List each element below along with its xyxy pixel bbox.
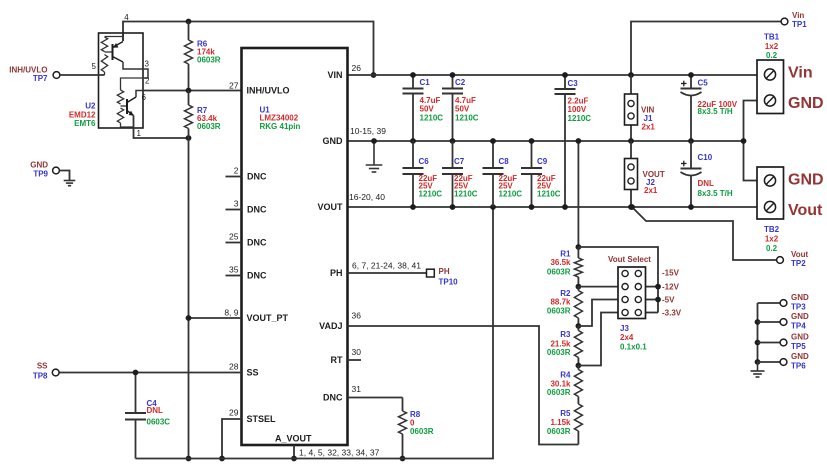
U1 PH pin wire — [330, 261, 427, 279]
test point TP7 INH/UVLO — [9, 62, 104, 83]
svg-text:8, 9: 8, 9 — [224, 308, 238, 318]
test point TP2 Vout — [777, 250, 809, 268]
svg-text:0603R: 0603R — [547, 388, 571, 397]
capacitor C3 2.2uF VIN to VOUT — [555, 72, 592, 210]
svg-text:36: 36 — [352, 311, 362, 321]
svg-text:0603R: 0603R — [547, 307, 571, 316]
svg-text:35: 35 — [229, 265, 239, 275]
svg-text:RT: RT — [331, 355, 343, 365]
wire A_VOUT bottom rail — [136, 204, 496, 458]
wire TB1 TB2 GND jog — [741, 101, 757, 181]
wire J3 row4 out — [646, 312, 659, 314]
svg-text:0603R: 0603R — [547, 348, 571, 357]
test point TP8 SS — [33, 362, 59, 381]
svg-text:50V: 50V — [455, 105, 470, 114]
U1 pin 3 DNC — [226, 199, 267, 215]
resistor R4 30.1k — [547, 366, 582, 405]
svg-text:GND: GND — [788, 95, 824, 112]
wire VIN rail — [348, 74, 758, 76]
node divider top — [576, 244, 582, 250]
test point TP5 GND — [758, 333, 810, 351]
svg-text:10-15, 39: 10-15, 39 — [350, 126, 386, 136]
svg-text:DNL: DNL — [147, 406, 164, 415]
U2 internal bias resistor lower pair — [117, 78, 143, 127]
svg-text:1, 4, 5, 32, 33, 34, 37: 1, 4, 5, 32, 33, 34, 37 — [299, 448, 380, 458]
svg-text:TP6: TP6 — [791, 361, 806, 370]
wire J3 row2 out — [646, 284, 661, 290]
U2 internal bias resistor upper pair — [101, 37, 123, 76]
test point TP10 PH pad — [427, 267, 459, 287]
capacitor C2 4.7uF — [442, 72, 479, 144]
node R3 R4 — [576, 363, 582, 369]
svg-text:C7: C7 — [454, 157, 465, 166]
svg-text:0603R: 0603R — [197, 56, 221, 65]
svg-text:8x3.5 T/H: 8x3.5 T/H — [698, 107, 733, 116]
svg-text:TP5: TP5 — [791, 342, 806, 351]
svg-text:DNL: DNL — [698, 179, 715, 188]
svg-text:6, 7, 21-24, 38, 41: 6, 7, 21-24, 38, 41 — [352, 261, 421, 271]
svg-text:30: 30 — [352, 347, 362, 357]
svg-text:GND: GND — [323, 136, 344, 146]
wire VIN top rail from U2 pin4 and R6 to VIN net — [123, 19, 376, 78]
svg-text:C10: C10 — [698, 153, 713, 162]
svg-text:-12V: -12V — [662, 283, 680, 292]
svg-text:VOUT_PT: VOUT_PT — [247, 313, 289, 323]
svg-text:VADJ: VADJ — [319, 321, 342, 331]
svg-text:1210C: 1210C — [499, 190, 523, 199]
svg-text:TP9: TP9 — [33, 169, 48, 178]
svg-text:2x4: 2x4 — [620, 333, 634, 342]
svg-text:PH: PH — [330, 268, 343, 278]
svg-text:100V: 100V — [568, 105, 587, 114]
svg-text:1210C: 1210C — [537, 190, 561, 199]
svg-text:36.5k: 36.5k — [550, 258, 571, 267]
svg-text:28: 28 — [229, 362, 239, 372]
svg-text:27: 27 — [229, 80, 239, 90]
resistor R7 63.4k — [185, 91, 221, 139]
wire A_VOUT left vertical — [186, 138, 192, 461]
header J2 VOUT 2x1 — [625, 141, 665, 210]
U2 pin1 emitter to A_VOUT — [134, 116, 192, 141]
capacitor C10 DNL — [681, 141, 733, 210]
svg-text:8x3.5 T/H: 8x3.5 T/H — [698, 189, 733, 198]
svg-text:2: 2 — [234, 166, 239, 176]
svg-text:88.7k: 88.7k — [550, 298, 571, 307]
U1 pin 28 SS wire from TP8 — [59, 362, 259, 378]
U2 PNP transistor Q upper — [113, 42, 144, 70]
svg-text:1.15k: 1.15k — [550, 418, 571, 427]
svg-text:TP3: TP3 — [791, 302, 806, 311]
svg-text:SS: SS — [37, 362, 48, 371]
svg-text:VOUT: VOUT — [317, 202, 343, 212]
svg-text:R3: R3 — [560, 330, 571, 339]
svg-text:1210C: 1210C — [455, 114, 479, 123]
node R1 R2 — [576, 284, 582, 290]
header J3 2x4 Vout Select — [608, 255, 651, 352]
U1 pin 35 DNC — [226, 265, 267, 281]
svg-text:1210C: 1210C — [420, 114, 444, 123]
svg-text:-5V: -5V — [662, 296, 675, 305]
capacitor C1 4.7uF — [403, 72, 444, 144]
ground symbol TP9 — [59, 171, 75, 186]
svg-text:1x2: 1x2 — [765, 235, 779, 244]
svg-text:DNC: DNC — [247, 205, 267, 215]
svg-text:0603R: 0603R — [197, 122, 221, 131]
svg-text:2x1: 2x1 — [644, 186, 658, 195]
U1 pins 10-15 39 GND — [323, 126, 387, 146]
svg-text:3: 3 — [145, 60, 150, 69]
wire J3 row2 feeder — [578, 286, 618, 288]
U2 pin3 pin2 jog — [143, 60, 150, 86]
U1 pin 8 9 VOUT_PT — [186, 308, 289, 324]
svg-text:C9: C9 — [537, 157, 548, 166]
svg-text:26: 26 — [352, 63, 362, 73]
wire GND rail — [348, 140, 744, 142]
wire Vin TP1 riser — [628, 22, 781, 78]
wire J3 row3 feeder — [578, 300, 618, 327]
U2 NPN transistor Q lower — [127, 91, 147, 116]
capacitor C9 22uF — [521, 138, 561, 210]
wire GND test point bus — [755, 303, 761, 365]
resistor R6 174k — [185, 22, 221, 91]
svg-text:R5: R5 — [560, 409, 571, 418]
svg-text:0603R: 0603R — [547, 268, 571, 277]
svg-text:GND: GND — [791, 293, 809, 302]
wire J3 row3 out — [646, 297, 661, 303]
svg-text:50V: 50V — [420, 105, 435, 114]
U1 pin 26 VIN — [327, 63, 361, 80]
svg-text:GND: GND — [791, 312, 809, 321]
svg-text:C8: C8 — [499, 157, 510, 166]
svg-text:RKG 41pin: RKG 41pin — [260, 122, 301, 131]
U1 pin 29 STSEL — [219, 408, 276, 462]
wire INH/UVLO net to pin 27 — [143, 88, 242, 94]
U1 pin 30 RT stub — [331, 347, 362, 365]
svg-text:TB1: TB1 — [764, 33, 780, 42]
svg-text:DNC: DNC — [247, 271, 267, 281]
svg-text:STSEL: STSEL — [247, 414, 277, 424]
U1 pin 36 VADJ wire — [319, 311, 578, 445]
U2 pin 4 emitter stub — [123, 13, 129, 41]
wire J3 row4 feeder — [578, 313, 618, 366]
svg-text:1: 1 — [137, 129, 142, 138]
capacitor C5 22uF 100V — [681, 72, 738, 144]
svg-text:16-20, 40: 16-20, 40 — [349, 192, 385, 202]
svg-text:Vin: Vin — [792, 11, 804, 20]
svg-text:U2: U2 — [85, 101, 96, 110]
svg-text:DNC: DNC — [247, 172, 267, 182]
svg-text:Vout: Vout — [791, 250, 809, 259]
wire divider top from GND rail — [576, 138, 582, 247]
svg-text:0.1x0.1: 0.1x0.1 — [620, 343, 647, 352]
svg-text:0.2: 0.2 — [766, 244, 778, 253]
svg-text:GND: GND — [30, 161, 48, 170]
svg-text:TP2: TP2 — [791, 259, 806, 268]
svg-text:25: 25 — [229, 232, 239, 242]
test point TP4 GND — [758, 312, 810, 330]
svg-text:0603R: 0603R — [410, 427, 434, 436]
wire J3 select rail — [578, 247, 658, 313]
svg-text:TP8: TP8 — [33, 371, 48, 380]
svg-text:31: 31 — [352, 384, 362, 394]
svg-text:GND: GND — [791, 352, 809, 361]
test point TP6 GND — [758, 352, 810, 370]
svg-text:J3: J3 — [620, 324, 629, 333]
U1 A_VOUT bottom pin — [275, 434, 380, 462]
U1 pin 2 DNC — [226, 166, 267, 182]
net label -3.3V — [662, 309, 682, 318]
U1 pins 16-20 40 VOUT — [317, 192, 385, 212]
svg-text:TP7: TP7 — [33, 74, 48, 83]
svg-text:-15V: -15V — [662, 269, 680, 278]
transistor U2 EMD12 box — [69, 33, 143, 128]
test point TP3 GND — [758, 293, 810, 311]
resistor R8 0 ohm — [399, 398, 434, 462]
svg-text:6: 6 — [142, 93, 147, 102]
svg-text:Vin: Vin — [788, 65, 813, 82]
ground symbol at U1 GND pin — [366, 138, 383, 172]
svg-text:C6: C6 — [419, 157, 430, 166]
svg-text:TP1: TP1 — [792, 20, 807, 29]
svg-text:C5: C5 — [698, 79, 709, 88]
terminal block TB2 — [757, 167, 824, 253]
svg-text:C2: C2 — [455, 78, 466, 87]
svg-text:5: 5 — [92, 62, 97, 71]
resistor R3 21.5k — [547, 326, 582, 366]
wire VOUT rail — [348, 206, 758, 208]
svg-text:3: 3 — [234, 199, 239, 209]
resistor R2 88.7k — [547, 287, 582, 326]
svg-text:2x1: 2x1 — [642, 123, 656, 132]
svg-text:Vout: Vout — [788, 202, 823, 219]
svg-text:DNC: DNC — [323, 393, 343, 403]
svg-text:TB2: TB2 — [764, 225, 780, 234]
terminal block TB1 — [757, 33, 824, 114]
wire Vout TP2 — [629, 204, 776, 260]
svg-text:4: 4 — [124, 13, 129, 22]
capacitor C6 22uF — [403, 141, 443, 210]
net label -12V — [662, 283, 680, 292]
svg-text:SS: SS — [247, 368, 259, 378]
svg-text:GND: GND — [791, 333, 809, 342]
svg-text:TP4: TP4 — [791, 321, 806, 330]
svg-text:1210C: 1210C — [454, 190, 478, 199]
resistor R5 1.15k — [547, 404, 582, 445]
U1 pin 31 DNC wire to R8 — [323, 384, 403, 403]
ground symbol TP6 — [751, 362, 765, 377]
U1 pin 27 INH/UVLO — [229, 80, 289, 95]
net label -15V — [662, 269, 680, 278]
svg-text:EMT6: EMT6 — [74, 119, 96, 128]
net label -5V — [662, 296, 675, 305]
svg-text:Vout Select: Vout Select — [608, 255, 651, 264]
svg-text:1210C: 1210C — [419, 190, 443, 199]
svg-text:0603C: 0603C — [147, 418, 171, 427]
header J1 VIN 2x1 — [625, 75, 656, 144]
svg-text:C3: C3 — [568, 79, 579, 88]
capacitor C7 22uF — [442, 141, 478, 210]
test point TP9 GND — [30, 161, 59, 179]
op-amp U1 LMZ34002 box — [242, 48, 348, 445]
capacitor C8 22uF — [483, 138, 523, 207]
capacitor C4 DNL — [125, 370, 170, 459]
U1 pin 25 DNC — [226, 232, 267, 248]
svg-text:R4: R4 — [560, 371, 571, 380]
svg-text:-3.3V: -3.3V — [662, 309, 682, 318]
svg-text:TP10: TP10 — [439, 277, 459, 286]
svg-text:0603R: 0603R — [547, 427, 571, 436]
svg-text:EMD12: EMD12 — [69, 110, 96, 119]
svg-text:VIN: VIN — [327, 70, 342, 80]
resistor R1 36.5k — [547, 247, 582, 287]
svg-text:1x2: 1x2 — [765, 42, 779, 51]
svg-text:C1: C1 — [420, 78, 431, 87]
svg-text:INH/UVLO: INH/UVLO — [247, 86, 290, 96]
svg-text:A_VOUT: A_VOUT — [275, 434, 312, 444]
test point TP1 Vin — [781, 11, 807, 29]
svg-text:2: 2 — [145, 77, 150, 86]
svg-text:0.2: 0.2 — [766, 51, 778, 60]
svg-text:1210C: 1210C — [568, 114, 592, 123]
svg-text:GND: GND — [788, 172, 824, 189]
svg-text:DNC: DNC — [247, 238, 267, 248]
svg-text:PH: PH — [439, 267, 450, 276]
svg-text:29: 29 — [229, 408, 239, 418]
node R2 R3 — [576, 323, 582, 329]
